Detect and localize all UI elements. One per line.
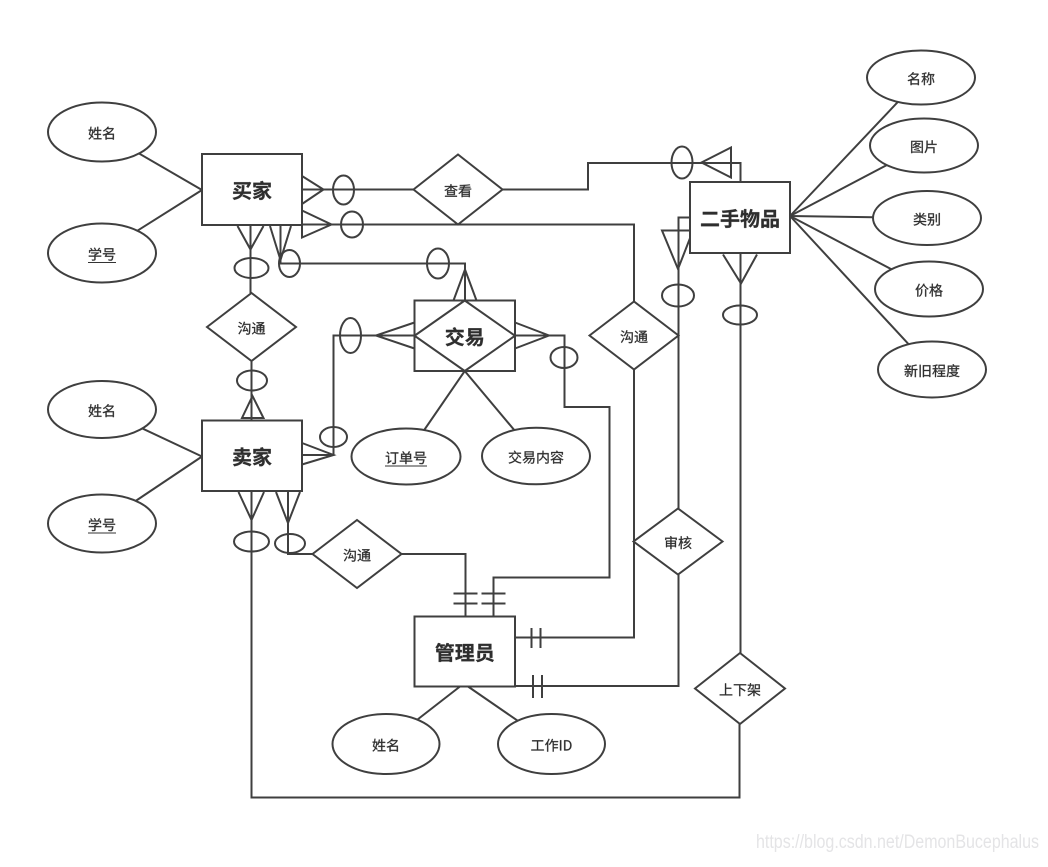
crow-foot 买家 right-1 bbox=[302, 176, 324, 204]
oval on wire 买家-沟通2 bbox=[341, 212, 363, 238]
oval on wire 沟通1-卖家 bbox=[237, 371, 267, 391]
relationship 沟通2 bbox=[590, 302, 679, 370]
attribute 工作ID bbox=[498, 714, 605, 774]
attribute 图片 bbox=[870, 119, 978, 173]
wire 买家-查看 bbox=[302, 189, 414, 191]
wire 姓名1-买家 bbox=[102, 132, 202, 190]
relationship 审核 bbox=[634, 509, 723, 575]
double tick 沟通2-管理员 bbox=[532, 628, 541, 648]
wire 沟通3-管理员 bbox=[402, 554, 466, 617]
wire 交易-订单号 bbox=[406, 371, 465, 457]
wire 管理员-工作ID bbox=[468, 687, 552, 745]
crow-foot 买家 right-2 bbox=[302, 211, 332, 238]
oval on wire 卖家-沟通3 bbox=[275, 534, 305, 553]
wire 学号1-买家 bbox=[102, 190, 202, 253]
wire 二手物品-图片 bbox=[790, 146, 924, 217]
attribute 订单号 bbox=[352, 429, 461, 485]
oval on wire 交易-管理员 bbox=[551, 347, 578, 368]
wire 买家-沟通1 bbox=[250, 225, 252, 293]
entity 管理员 bbox=[415, 617, 516, 687]
oval on wire 二手物品-上下架 bbox=[723, 306, 757, 325]
entity 二手物品 bbox=[690, 182, 790, 253]
wire 学号2-卖家 bbox=[102, 457, 202, 524]
oval on wire 买家-交易 b bbox=[427, 249, 449, 279]
svg-text:https://blog.csdn.net/DemonBuc: https://blog.csdn.net/DemonBucephalus bbox=[756, 832, 1039, 853]
attribute 姓名1 bbox=[48, 103, 156, 162]
crow-foot 卖家 right bbox=[302, 443, 334, 465]
attribute 价格 bbox=[875, 262, 983, 317]
entity 卖家 bbox=[202, 421, 302, 492]
crow-foot 交易 right bbox=[515, 323, 549, 349]
crow-foot 卖家 bottom-right bbox=[276, 492, 300, 523]
attribute 交易内容 bbox=[482, 428, 590, 485]
attribute 名称 bbox=[867, 51, 975, 105]
wire 查看-二手物品 bbox=[503, 163, 741, 190]
attribute 类别 bbox=[873, 191, 981, 245]
crow-foot 交易 top bbox=[454, 270, 477, 301]
oval on wire 卖家-上下架 bbox=[234, 532, 269, 552]
oval on wire 二手物品-审核 bbox=[662, 285, 694, 307]
oval on wire 买家-查看 bbox=[333, 176, 354, 205]
wire 沟通2-管理员 bbox=[515, 370, 634, 638]
wire 二手物品-类别 bbox=[790, 216, 927, 218]
attribute 学号1 bbox=[48, 224, 156, 283]
wire 卖家-交易 bbox=[302, 336, 415, 456]
crow-foot 买家 bottom-left bbox=[238, 226, 264, 250]
crow-foot 卖家 bottom-left bbox=[239, 492, 265, 520]
arrow on 沟通1-卖家 wire bbox=[242, 396, 264, 418]
relationship 沟通1 bbox=[207, 293, 296, 361]
attribute 学号2 bbox=[48, 495, 156, 553]
wire 沟通1-卖家 bbox=[251, 361, 253, 421]
wire 买家-交易 bbox=[281, 225, 466, 301]
attribute 姓名2 bbox=[48, 381, 156, 438]
wire 管理员-审核 bbox=[515, 575, 679, 687]
wire 交易-管理员 bbox=[494, 336, 610, 617]
wire 交易-交易内容 bbox=[465, 371, 536, 456]
double tick 管理员-审核 bbox=[533, 675, 542, 698]
wire 二手物品-价格 bbox=[790, 216, 929, 289]
oval on wire 买家-沟通1 bbox=[235, 258, 269, 278]
wire 姓名2-卖家 bbox=[102, 410, 202, 457]
relationship 上下架 bbox=[695, 653, 785, 724]
wire 二手物品-新旧程度 bbox=[790, 216, 932, 370]
wire 二手物品-审核 bbox=[679, 218, 691, 509]
wire 买家-沟通2 bbox=[302, 225, 634, 302]
attribute 姓名3 bbox=[333, 714, 440, 774]
relationship 沟通3 bbox=[313, 520, 402, 588]
attribute 新旧程度 bbox=[878, 342, 986, 398]
crow-foot 二手物品 bottom bbox=[723, 255, 757, 284]
arrow on 二手物品-审核 wire bbox=[662, 231, 693, 270]
oval on wire 卖家-交易 a bbox=[340, 318, 361, 353]
entity 买家 bbox=[202, 154, 302, 225]
oval on wire 买家-交易 a bbox=[279, 250, 300, 277]
crow-foot 交易 left bbox=[376, 323, 415, 349]
wire 管理员-姓名 bbox=[386, 687, 460, 745]
wire 二手物品-上下架 bbox=[740, 253, 742, 653]
arrow on 查看-二手物品 wire bbox=[702, 148, 732, 178]
double tick 交易-管理员 bbox=[482, 594, 506, 604]
wire 卖家-沟通3 bbox=[288, 491, 313, 554]
wire 二手物品-名称 bbox=[790, 78, 921, 217]
oval on wire 查看-二手物品 bbox=[672, 147, 693, 179]
crow-foot 买家 bottom-right bbox=[270, 226, 291, 260]
wire 卖家-上下架 bottom loop bbox=[252, 491, 740, 798]
double tick 沟通3-管理员 bbox=[454, 594, 478, 604]
relationship 查看 bbox=[414, 155, 503, 225]
oval on wire 卖家-交易 b bbox=[320, 427, 347, 447]
entity 交易 (associative: rect + inscribed diamond) bbox=[415, 301, 516, 372]
